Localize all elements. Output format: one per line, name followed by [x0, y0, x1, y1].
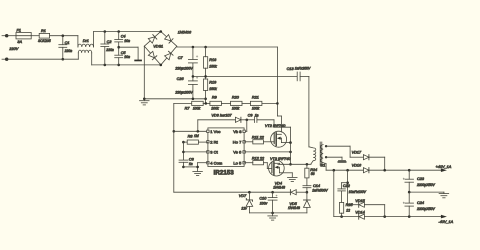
diode VD14	[359, 214, 385, 219]
wire +40V rail	[369, 168, 447, 172]
wire end2 snubber drop	[346, 170, 349, 205]
resistor R7	[192, 101, 204, 105]
wire pin3 Ct line	[183, 151, 208, 153]
resistor R21	[250, 101, 278, 105]
wire C9 to Vs node	[274, 120, 291, 143]
svg-text:12v: 12v	[241, 207, 247, 211]
wire Rt-Ct node vertical	[182, 142, 185, 160]
resistor R1	[39, 33, 49, 38]
wire C13 to primary	[308, 76, 310, 146]
svg-text:100k: 100k	[252, 106, 260, 110]
svg-text:R19: R19	[209, 81, 217, 85]
svg-text:10nFx100V: 10nFx100V	[349, 190, 367, 194]
capacitor C23	[403, 170, 414, 192]
resistor R8	[182, 140, 208, 144]
pin 8 pad	[243, 130, 245, 132]
svg-text:2200µX50V: 2200µX50V	[416, 183, 436, 187]
capacitor C5	[115, 55, 123, 65]
diode VD16	[363, 168, 369, 173]
pin 7 pad	[243, 141, 245, 143]
wire secondary top tap	[326, 146, 363, 157]
wire charge pump lower rail	[249, 212, 307, 215]
ground primary minus	[140, 99, 150, 105]
wire output mid rail	[408, 191, 444, 194]
capacitor C7	[188, 47, 198, 76]
svg-text:VT2 IRF740: VT2 IRF740	[265, 124, 286, 128]
svg-text:VT3 IRF740: VT3 IRF740	[270, 157, 291, 161]
ground com	[193, 171, 203, 175]
wire bottom rail after choke	[92, 64, 161, 67]
svg-text:Vs 6: Vs 6	[233, 150, 242, 155]
bridge rectifier VDS1	[144, 30, 177, 66]
svg-text:VD17: VD17	[352, 151, 362, 155]
svg-text:10n: 10n	[124, 55, 130, 59]
wire Vb stub	[244, 120, 247, 132]
svg-text:Vb 8: Vb 8	[233, 129, 242, 134]
wire secondary bottom tap	[326, 169, 363, 172]
pin 4 pad	[207, 162, 209, 164]
wire secondary center tap	[326, 157, 342, 160]
wire VD3 anode drop	[198, 120, 236, 132]
wire minus rail	[143, 98, 206, 101]
svg-text:R20: R20	[232, 96, 240, 100]
wire R1 to choke	[50, 34, 78, 37]
svg-text:F1: F1	[17, 28, 21, 32]
ground output	[439, 194, 449, 198]
svg-text:Ho 7: Ho 7	[233, 140, 242, 145]
transformer secondary	[321, 145, 328, 171]
wire C8 bottom to com	[183, 166, 197, 168]
transistor Q VT3	[269, 160, 293, 177]
wire Vcc rail bottom	[174, 191, 291, 194]
wire -40V rail	[383, 215, 446, 219]
wire bridge minus vertical	[143, 46, 145, 99]
svg-text:C23: C23	[417, 177, 425, 181]
svg-text:2200µX50V: 2200µX50V	[416, 207, 436, 211]
svg-text:1N4148: 1N4148	[273, 185, 285, 189]
wire Y-cap junction to earth	[117, 46, 138, 60]
svg-text:4 Com: 4 Com	[210, 161, 223, 166]
svg-text:100v: 100v	[260, 201, 268, 205]
wire F1 to R1	[31, 35, 39, 37]
earth bar	[134, 60, 142, 62]
svg-text:R1: R1	[41, 29, 46, 33]
resistor R19	[204, 76, 208, 103]
svg-text:220n: 220n	[105, 48, 114, 52]
pin 1 pad	[207, 130, 209, 132]
wire end2 to VD14	[334, 170, 359, 218]
svg-text:+40V_1A: +40V_1A	[436, 165, 452, 169]
diode VD4	[290, 190, 307, 195]
resistor R20	[231, 101, 251, 105]
diode VD15	[348, 202, 385, 217]
svg-text:100k: 100k	[211, 106, 219, 110]
zener VD7	[246, 192, 253, 213]
wire top rail to fuse	[7, 35, 16, 37]
svg-text:1uFx250V: 1uFx250V	[295, 66, 311, 70]
svg-text:VD7: VD7	[239, 194, 247, 198]
svg-text:100k: 100k	[232, 106, 240, 110]
svg-text:1nFx500V: 1nFx500V	[312, 189, 328, 193]
diode VD5	[304, 192, 311, 213]
wire top rail after choke	[94, 30, 161, 33]
resistor R25	[340, 202, 344, 216]
pin 6 pad	[243, 151, 245, 153]
svg-text:1M: 1M	[194, 134, 199, 138]
svg-text:+: +	[196, 54, 199, 59]
resistor chain feed wire	[174, 102, 192, 104]
ground charge pump	[268, 213, 278, 220]
wire half-bridge midline	[192, 75, 297, 78]
pin 2 pad	[207, 141, 209, 143]
capacitor C2	[101, 32, 109, 65]
capacitor C22	[338, 183, 348, 203]
transformer Tr1 primary	[309, 147, 316, 164]
pin 3 pad	[207, 151, 209, 153]
svg-text:12: 12	[346, 208, 350, 212]
wire +310 vertical to VT2 drain	[277, 47, 281, 132]
capacitor C1	[59, 36, 67, 61]
capacitor C8	[179, 160, 188, 168]
svg-text:C10: C10	[259, 196, 267, 200]
node R7-R9 junction	[203, 102, 210, 105]
svg-text:2 Rt: 2 Rt	[210, 140, 218, 145]
choke Dr1 top winding	[78, 32, 94, 48]
svg-text:C1: C1	[65, 41, 70, 45]
resistor R11	[244, 140, 274, 144]
svg-text:10n: 10n	[124, 39, 130, 43]
earth bar secondary	[338, 160, 347, 162]
svg-text:R18: R18	[209, 58, 217, 62]
svg-text:C4: C4	[121, 34, 126, 38]
svg-text:220n: 220n	[64, 49, 73, 53]
svg-text:3A: 3A	[17, 40, 22, 44]
svg-text:VD16: VD16	[352, 163, 362, 167]
wire pin6 Vs line	[244, 151, 292, 154]
op-amp U1 IR2153 body	[208, 128, 244, 167]
svg-text:100k: 100k	[193, 106, 201, 110]
resistor R9	[210, 101, 231, 105]
resistor R18	[204, 47, 208, 76]
svg-text:1N4148: 1N4148	[288, 206, 300, 210]
svg-text:VD14: VD14	[355, 211, 365, 215]
svg-text:220µx200V: 220µx200V	[174, 91, 193, 95]
svg-text:1n: 1n	[255, 113, 259, 117]
capacitor C9	[255, 117, 275, 123]
wire pin1 Vcc line	[174, 130, 208, 133]
svg-text:VD3 her107: VD3 her107	[211, 114, 232, 118]
svg-text:56: 56	[311, 172, 315, 176]
capacitor C24	[403, 192, 414, 217]
svg-text:150k: 150k	[209, 87, 217, 91]
svg-text:Lo 5: Lo 5	[233, 161, 242, 166]
svg-text:1 Vcc: 1 Vcc	[210, 129, 220, 134]
svg-text:C26: C26	[177, 77, 185, 81]
diode VD3	[235, 117, 254, 122]
ground VT3 source	[288, 177, 298, 181]
svg-text:C13: C13	[287, 67, 295, 71]
svg-text:Tr1: Tr1	[320, 164, 325, 168]
svg-text:C14: C14	[313, 184, 320, 188]
svg-text:VD15: VD15	[355, 199, 365, 203]
diode VD17	[363, 155, 384, 171]
svg-text:R21: R21	[252, 96, 259, 100]
choke Dr1 bottom winding	[78, 50, 91, 65]
transistor Q VT2	[271, 131, 292, 147]
wire +310 rail	[177, 46, 278, 49]
svg-text:3 Ct: 3 Ct	[210, 150, 218, 155]
svg-text:220µx200V: 220µx200V	[174, 66, 193, 70]
wire Vcc vertical	[173, 103, 176, 192]
wire midpoint to primary	[278, 163, 311, 166]
svg-text:R11 22: R11 22	[252, 135, 265, 139]
pin 5 pad	[243, 162, 245, 164]
svg-text:SCK205: SCK205	[38, 39, 51, 43]
svg-text:Dr1: Dr1	[83, 39, 89, 43]
capacitor C10	[268, 192, 278, 213]
svg-text:R12 22: R12 22	[252, 156, 265, 160]
fuse F1	[16, 33, 31, 39]
svg-text:1N5406: 1N5406	[178, 30, 192, 34]
svg-text:R25: R25	[346, 203, 354, 207]
svg-text:IR2153: IR2153	[214, 170, 235, 177]
svg-text:220V: 220V	[8, 47, 18, 51]
svg-text:150k: 150k	[209, 65, 217, 69]
capacitor C4	[115, 32, 123, 56]
resistor R12	[244, 161, 272, 169]
svg-text:VDS1: VDS1	[153, 45, 163, 49]
wire midpoint vertical	[289, 143, 292, 166]
capacitor C14	[303, 186, 311, 194]
svg-text:C22: C22	[343, 184, 351, 188]
svg-text:-40V_1A: -40V_1A	[438, 220, 453, 224]
capacitor C26	[188, 76, 198, 99]
wire bottom rail	[7, 58, 79, 60]
svg-text:C24: C24	[417, 201, 424, 205]
svg-text:1n: 1n	[189, 162, 193, 166]
terminal L2 input	[2, 58, 8, 61]
capacitor C13	[297, 72, 309, 81]
terminal L1 input	[2, 34, 8, 37]
transformer core	[320, 142, 322, 166]
wire pin4 Com	[196, 163, 208, 172]
resistor R24	[305, 164, 309, 185]
